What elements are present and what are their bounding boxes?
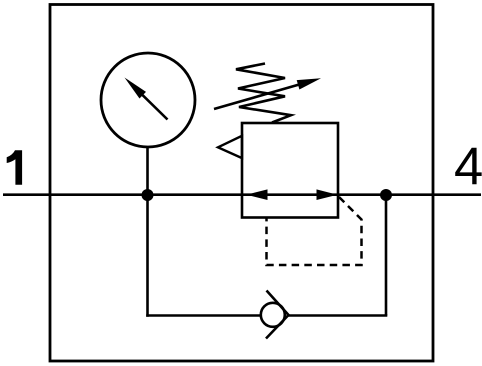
flow arrow right [317, 189, 338, 200]
svg-text:4: 4 [454, 138, 482, 197]
relief vent triangle [218, 136, 242, 158]
wire bypass bottom right [289, 314, 388, 317]
wire bypass left leg [146, 195, 149, 317]
pilot dashed line [267, 197, 362, 265]
pressure gauge G1 [101, 53, 195, 147]
check valve CV1 [261, 303, 285, 327]
check valve seat [266, 291, 289, 339]
flow arrow left [247, 189, 268, 200]
wire gauge stem [146, 147, 149, 196]
wire bypass bottom left [146, 314, 261, 317]
wire bypass right leg [385, 195, 388, 316]
adjustment arrow [214, 78, 321, 109]
node junction left [142, 189, 154, 201]
spring (adjustable) [236, 64, 291, 123]
wire main line 1-4 [3, 193, 481, 196]
regulator body R1 [242, 123, 338, 218]
node junction right [380, 189, 392, 201]
gauge needle [125, 78, 168, 120]
enclosure box [50, 5, 433, 362]
port label 1 [7, 150, 22, 185]
